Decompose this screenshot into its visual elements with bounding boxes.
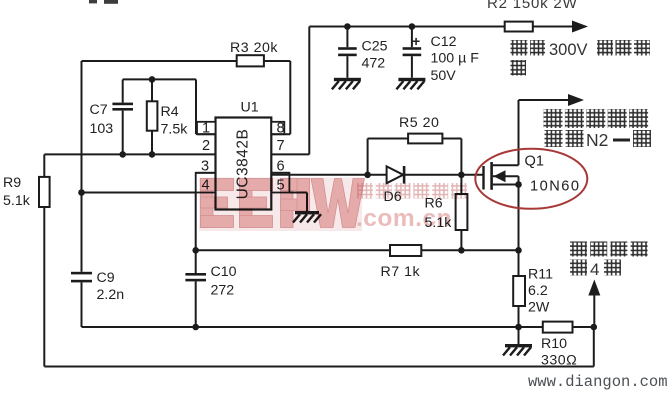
resistor R6 — [456, 194, 468, 230]
svg-text:2W: 2W — [528, 300, 550, 316]
svg-text:5.1k: 5.1k — [3, 193, 31, 209]
svg-text:Q1: Q1 — [525, 154, 544, 170]
wire to transformer arrow — [519, 99, 571, 101]
wire — [460, 175, 462, 194]
wire — [411, 27, 413, 48]
wire R3 left — [82, 60, 237, 62]
wire R7 right — [421, 249, 518, 251]
wire — [122, 111, 124, 155]
wire Q1 drain stub — [493, 164, 519, 166]
wire — [346, 56, 348, 78]
svg-text:R11: R11 — [528, 267, 553, 283]
svg-text:3: 3 — [201, 159, 209, 175]
wire opto arrow shaft — [593, 292, 595, 327]
wire to ground — [518, 327, 520, 344]
svg-text:N2: N2 — [586, 130, 608, 150]
wire pin7 riser to rail — [308, 27, 310, 155]
wire pin5 — [289, 192, 307, 194]
arrow to optocoupler pin4 — [588, 280, 600, 296]
svg-text:300V: 300V — [549, 41, 588, 59]
resistor R9 — [39, 177, 50, 207]
wire — [518, 306, 520, 327]
resistor R4 — [147, 101, 158, 130]
node C25/rail — [344, 23, 351, 30]
svg-text:U1: U1 — [241, 100, 259, 116]
wire R9 down left edge — [43, 207, 45, 367]
node R11 bottom — [515, 324, 522, 331]
resistor R7 — [390, 245, 421, 256]
svg-text:6.2: 6.2 — [528, 283, 548, 299]
svg-text:.com.cn: .com.cn — [356, 205, 452, 232]
node D6 cathode / R5 right / R6 top — [458, 172, 465, 179]
svg-text:6: 6 — [276, 159, 284, 175]
capacitor C9 — [71, 272, 92, 283]
svg-text:7.5k: 7.5k — [161, 122, 189, 138]
wire R3 right — [264, 60, 290, 62]
cropped text fragment top-left — [89, 0, 118, 4]
wire — [442, 138, 461, 140]
node C10 bottom — [192, 324, 199, 331]
wire VCC top rail — [309, 26, 504, 28]
diode D6 — [387, 166, 406, 184]
wire pin4 — [82, 192, 198, 194]
wire bottom rail — [44, 366, 594, 368]
wire pin8 stub — [271, 133, 290, 135]
Q1 body arrow — [494, 170, 506, 182]
svg-text:472: 472 — [362, 56, 386, 72]
wire — [195, 281, 197, 327]
wire — [151, 79, 153, 101]
node R10 right / opto arrow — [591, 324, 598, 331]
svg-text:R4: R4 — [161, 104, 179, 120]
arrow to transformer N2 — [568, 94, 584, 106]
svg-text:www.diangon.com: www.diangon.com — [528, 373, 668, 391]
pin 4 stub — [196, 173, 216, 193]
wire pin6 to gate — [271, 174, 483, 176]
label: 来自300V直流电源 (to 300V DC source) — [511, 40, 651, 76]
watermark red chinese 電子產品世界 — [357, 183, 467, 199]
wire — [346, 27, 348, 48]
pin 8 stub — [271, 122, 284, 134]
node D6 anode / R5 left — [364, 172, 371, 179]
wire R10 right — [573, 326, 594, 328]
svg-text:R2 150k 2W: R2 150k 2W — [487, 0, 578, 12]
svg-text:C7: C7 — [90, 102, 108, 118]
resistor R10 — [543, 322, 573, 333]
wire pin7 — [271, 153, 309, 155]
capacitor C25 — [338, 47, 357, 56]
svg-text:7: 7 — [276, 138, 284, 154]
svg-text:1: 1 — [202, 121, 210, 137]
resistor R3 — [237, 55, 264, 66]
wire R7 left — [196, 249, 390, 251]
node C12/rail — [409, 23, 416, 30]
resistor R2 — [505, 22, 533, 32]
wire — [81, 282, 83, 327]
wire Q1 body stub — [493, 175, 519, 177]
wire pin2 to R9 — [44, 153, 215, 155]
wire R5 right riser — [460, 139, 462, 175]
svg-text:+: + — [412, 33, 420, 49]
node pin4/left trunk — [78, 189, 85, 196]
pin 1 stub — [197, 122, 216, 134]
resistor R11 — [513, 276, 525, 306]
node C7 bottom — [119, 151, 126, 158]
node R4 bottom — [149, 151, 156, 158]
transistor Q1 MOSFET — [482, 162, 493, 190]
svg-text:C10: C10 — [211, 264, 237, 280]
node R6 bottom — [458, 247, 465, 254]
wire — [411, 56, 413, 78]
svg-text:100 µ F: 100 µ F — [431, 51, 480, 67]
svg-text:R10: R10 — [541, 336, 567, 352]
wire bottom line — [82, 326, 543, 328]
ground R11 — [503, 344, 532, 356]
svg-text:50V: 50V — [431, 68, 457, 84]
wire — [151, 131, 153, 155]
wire — [368, 138, 409, 140]
svg-text:2.2n: 2.2n — [97, 287, 125, 303]
wire — [518, 250, 520, 276]
pin 6 divider — [271, 172, 289, 174]
wire — [122, 79, 124, 102]
capacitor C10 — [185, 273, 206, 281]
wire pin1 stub — [197, 133, 216, 135]
svg-text:2: 2 — [202, 138, 210, 154]
wire to 300V source arrow — [533, 26, 574, 28]
wire R5 left riser — [367, 139, 369, 175]
red highlight ellipse around Q1 — [475, 149, 587, 209]
wire — [460, 230, 462, 250]
ground C25 — [332, 78, 361, 90]
node Q1 source — [515, 181, 522, 188]
svg-text:272: 272 — [211, 283, 235, 299]
svg-text:4: 4 — [590, 260, 599, 279]
node C10 top / R7 line — [192, 247, 199, 254]
svg-text:C12: C12 — [431, 34, 457, 50]
label: 去开关变压器的N2一端 (to transformer N2) — [544, 109, 652, 150]
resistor R5 — [408, 134, 442, 144]
wire Q1 source stub — [493, 184, 519, 186]
svg-text:330Ω: 330Ω — [541, 353, 577, 369]
svg-text:10N60: 10N60 — [530, 179, 581, 195]
ground pin5 — [293, 211, 321, 223]
wire pin5 down — [306, 193, 308, 212]
svg-text:8: 8 — [276, 121, 284, 137]
wire left trunk upper — [81, 61, 83, 272]
svg-text:C9: C9 — [97, 270, 115, 286]
svg-text:103: 103 — [90, 121, 114, 137]
op-amp U1 UC3842B body — [216, 118, 272, 210]
capacitor C12 (electrolytic) — [403, 47, 422, 56]
svg-text:R7 1k: R7 1k — [381, 264, 421, 280]
node source/R7/R11 — [515, 247, 522, 254]
node R4 top — [149, 76, 156, 83]
arrow to 300V DC source — [572, 21, 588, 33]
svg-text:C25: C25 — [362, 39, 388, 55]
pin 3/4 divider — [196, 172, 216, 174]
label: 去光耦的第4脚 (to optocoupler pin 4) — [570, 242, 648, 280]
ground C12 — [396, 78, 425, 90]
svg-text:R9: R9 — [3, 175, 21, 191]
watermark EEPW — [199, 178, 467, 233]
wire Q1 drain riser — [518, 100, 520, 165]
wire pin4 down to C10 — [195, 193, 197, 274]
wire — [43, 154, 45, 177]
svg-text:R3 20k: R3 20k — [230, 40, 278, 56]
capacitor C7 — [112, 103, 133, 111]
wire Q1 source down — [518, 176, 520, 250]
wire bottom rail right riser — [593, 327, 595, 367]
wire C7/R4 top — [123, 78, 196, 80]
wire to pin1 — [195, 79, 197, 134]
wire R3 to pin8 — [289, 61, 291, 134]
pin 5 stub — [271, 173, 289, 193]
svg-text:R5 20: R5 20 — [399, 115, 439, 131]
